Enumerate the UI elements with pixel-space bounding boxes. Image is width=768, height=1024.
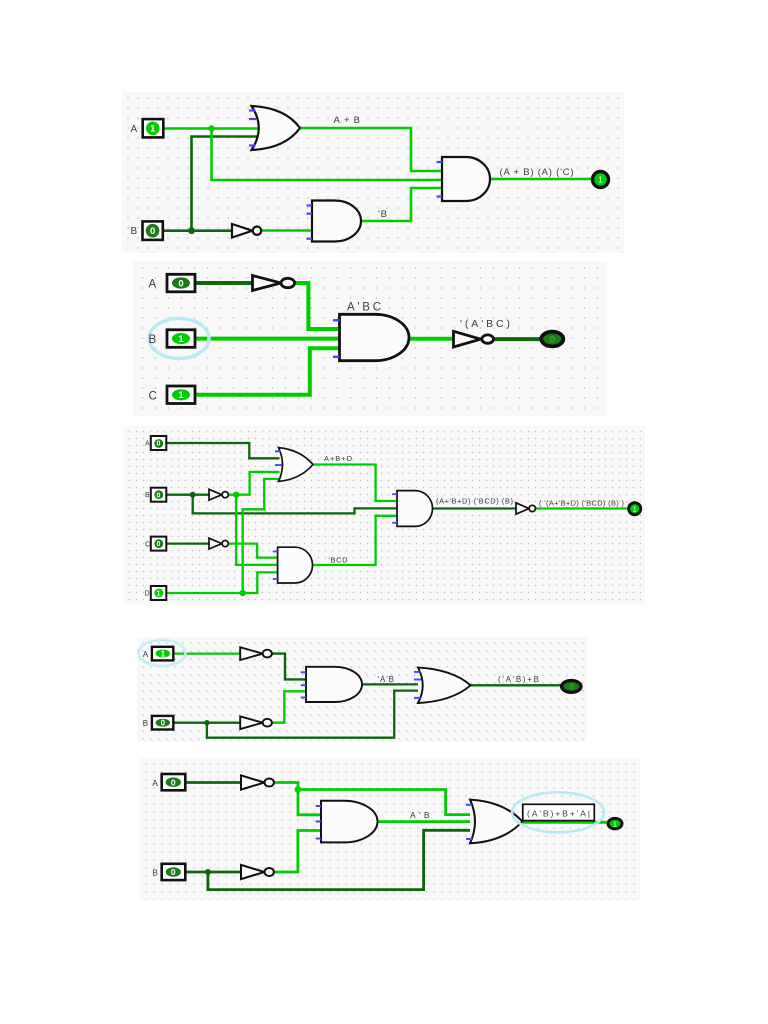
label D3 — [145, 591, 150, 598]
label A — [131, 124, 138, 135]
or-gate OR3 — [279, 448, 314, 482]
svg-text:1: 1 — [598, 176, 603, 185]
label B3 — [145, 492, 150, 499]
wire B4 to NOT4b — [173, 722, 240, 724]
wire D3 to OR3 bottom input — [243, 479, 280, 593]
input pin C3 — [151, 537, 167, 551]
wire A to OR1 — [163, 127, 259, 130]
svg-text:A'B: A'B — [410, 810, 430, 820]
label ('A'B)+B — [498, 675, 539, 684]
wire B3 to AND3b middle input — [193, 495, 397, 514]
wire AND4 output 'A'B to OR4 — [362, 683, 418, 685]
wire NOT1 output to AND1a — [262, 229, 313, 232]
node 'A junction — [295, 786, 302, 793]
wire C2 to AND2 bottom input — [195, 348, 340, 395]
pin stub AND5 input 1 — [316, 805, 321, 807]
svg-text:0: 0 — [161, 719, 166, 728]
not-gate NOT2a — [253, 276, 295, 291]
input pin B3 — [151, 488, 167, 502]
pin stub AND2 input 5 — [333, 356, 340, 358]
svg-text:C: C — [145, 541, 150, 548]
label (A + B) (A) ('C) — [500, 167, 574, 178]
input pin A2 — [167, 274, 195, 292]
pin stub AND5 input 5 — [316, 838, 321, 840]
svg-text:'A'B: 'A'B — [378, 675, 395, 684]
wire A4 to NOT4a — [173, 652, 240, 654]
node B3 junction — [190, 492, 196, 498]
label A3 — [145, 441, 150, 448]
svg-text:(A + B) (A) ('C): (A + B) (A) ('C) — [500, 167, 574, 178]
label A+B+D — [324, 454, 353, 463]
svg-text:0: 0 — [157, 541, 161, 548]
label A'B — [410, 810, 430, 820]
wire A5 to NOT5a — [185, 781, 241, 784]
svg-text:A: A — [152, 778, 158, 788]
label A'BC — [347, 302, 381, 314]
svg-text:A'BC: A'BC — [347, 302, 381, 314]
wire C3 to NOT3b — [166, 542, 209, 544]
wire 'B to AND3a middle input — [236, 495, 277, 565]
svg-text:0: 0 — [150, 226, 155, 237]
wire NOT3a output 'B to OR3 — [228, 472, 280, 495]
pin stub AND4 input 1 — [301, 671, 306, 673]
wire NOT5b output 'B to AND5 bottom input — [274, 831, 321, 873]
not-gate NOT5a — [241, 775, 274, 789]
wire OR4 output to LED4 — [471, 684, 562, 686]
pin stub OR1 input 5 — [249, 144, 256, 146]
svg-text:B: B — [149, 334, 157, 346]
not-gate NOT3b — [209, 538, 228, 549]
label B2 — [149, 334, 157, 346]
wire NOT2b output to LED2 — [493, 337, 541, 341]
node B4 junction — [204, 720, 209, 725]
input pin C2 — [167, 386, 195, 404]
wire B4 to OR4 bottom input — [207, 691, 418, 738]
pin stub AND1a input 2 — [307, 213, 313, 215]
pin stub OR4 input 5 — [414, 697, 421, 699]
svg-text:(A+'B+D) ('BCD) (B): (A+'B+D) ('BCD) (B) — [436, 497, 513, 506]
wire AND5 output A'B to OR5 — [378, 820, 471, 823]
wire NOT4a output 'A to AND4 top input — [272, 654, 306, 680]
svg-text:'(A'BC): '(A'BC) — [460, 318, 510, 330]
wire OR3 output A+B+D to AND3b top input — [313, 465, 397, 502]
and-gate AND1b — [442, 157, 490, 201]
wire NOT3b output 'C to AND3a top input — [228, 544, 278, 558]
pin stub OR5 input 5 — [466, 838, 472, 840]
and-gate AND5 — [321, 801, 378, 843]
not-gate NOT1 — [232, 224, 261, 238]
svg-text:1: 1 — [178, 390, 184, 401]
label C2 — [149, 390, 157, 402]
svg-text:1: 1 — [150, 124, 156, 135]
wire NOT3c output to LED3 — [536, 507, 629, 509]
svg-text:D: D — [145, 591, 150, 598]
pin stub AND3b input 5 — [392, 522, 397, 524]
pin stub AND4 input 3 — [301, 684, 306, 686]
label C3 — [145, 541, 150, 548]
wire D3 to AND3a bottom input — [166, 572, 277, 593]
not-gate NOT4a — [240, 647, 272, 660]
label ( '(A+'B+D) ('BCD) (B) ) — [539, 499, 624, 508]
svg-text:B: B — [143, 719, 148, 728]
pin stub OR3 input 1 — [275, 450, 281, 452]
pin stub AND1a input 5 — [307, 238, 313, 240]
wire B to NOT1 — [163, 229, 232, 232]
pin stub OR3 input 3 — [275, 464, 282, 466]
svg-text:1: 1 — [633, 506, 637, 513]
label (A+'B+D) ('BCD) (B) — [436, 497, 513, 506]
pin stub AND4 input 5 — [301, 697, 306, 699]
wire NOT2a output 'A to AND2 top input — [295, 283, 340, 329]
wire OR1 output A+B to AND1b top input — [300, 128, 442, 171]
LED5 output — [608, 818, 622, 828]
input pin A3 — [151, 436, 167, 450]
wire A3 to OR3 — [166, 443, 279, 458]
svg-text:( '(A+'B+D) ('BCD) (B) ): ( '(A+'B+D) ('BCD) (B) ) — [539, 499, 624, 508]
svg-text:0: 0 — [570, 682, 574, 691]
svg-text:0: 0 — [171, 777, 176, 787]
input pin D3 — [151, 586, 167, 600]
highlight ellipse around A4 — [139, 640, 186, 666]
input pin B2 — [167, 330, 195, 348]
and-gate AND2 — [340, 314, 410, 360]
pin stub AND3b input 1 — [392, 493, 397, 495]
wire B2 to AND2 middle input — [195, 337, 340, 341]
svg-text:A+B: A+B — [334, 115, 361, 126]
or-gate OR4 — [418, 668, 471, 703]
label B5 — [152, 868, 158, 878]
label 'A'B — [378, 675, 395, 684]
wire NOT4b output 'B to AND4 bottom input — [272, 691, 306, 722]
wire AND2 output A'BC to NOT2b — [409, 337, 454, 341]
label A4 — [143, 650, 149, 659]
pin stub AND3a input 1 — [273, 551, 278, 553]
svg-text:A: A — [149, 279, 157, 291]
label 'B — [378, 209, 387, 220]
svg-text:0: 0 — [178, 278, 183, 289]
input pin B5 — [162, 864, 186, 880]
or-gate OR5 — [470, 800, 522, 844]
pin stub AND1b input 5 — [437, 195, 443, 197]
svg-text:0: 0 — [171, 867, 176, 877]
svg-text:A+B+D: A+B+D — [324, 454, 353, 463]
input pin A4 — [152, 647, 173, 661]
svg-text:0: 0 — [157, 441, 161, 448]
or-gate OR1 — [252, 106, 301, 150]
svg-text:A: A — [143, 650, 149, 659]
label '(A'BC) — [460, 318, 510, 330]
svg-text:('A'B)+B: ('A'B)+B — [498, 675, 539, 684]
label 'BCD — [329, 555, 349, 564]
input pin B1 — [143, 221, 163, 240]
not-gate NOT2b — [454, 331, 494, 347]
svg-text:0: 0 — [157, 492, 161, 499]
svg-text:B: B — [145, 492, 150, 499]
wire 'A to AND5 top input — [298, 790, 321, 815]
svg-text:A: A — [131, 124, 138, 135]
pin stub AND2 input 1 — [333, 319, 340, 321]
svg-text:'B: 'B — [378, 209, 387, 220]
not-gate NOT3a — [209, 489, 228, 500]
wire B5 to NOT5b — [185, 871, 241, 874]
pin stub OR1 input 1 — [249, 109, 256, 111]
wire AND1b output to LED1 — [490, 178, 592, 181]
label B4 — [143, 719, 148, 728]
LED1 output — [593, 172, 609, 188]
svg-text:A: A — [145, 441, 150, 448]
node B5 junction — [205, 869, 211, 875]
wire AND1a output 'B to AND1b bottom input — [361, 188, 442, 221]
node 'B junction — [233, 492, 239, 498]
wire AND3a output 'BCD to AND3b bottom input — [313, 516, 398, 565]
wire B5 to OR5 bottom input — [208, 830, 470, 889]
label A2 — [149, 279, 157, 291]
wire B to OR1 lower input — [192, 137, 260, 231]
svg-text:0: 0 — [550, 334, 555, 344]
wire OR5 output to LED5 — [522, 821, 606, 824]
and-gate AND3b — [397, 491, 433, 527]
svg-text:(A'B)+B+'A|: (A'B)+B+'A| — [527, 809, 590, 819]
pin stub OR4 input 1 — [414, 671, 421, 673]
svg-text:B: B — [152, 868, 158, 878]
LED2 output — [541, 332, 563, 347]
LED3 output — [629, 503, 641, 515]
LED4 output — [562, 681, 581, 693]
highlight ellipse around B2 — [149, 318, 209, 358]
svg-text:1: 1 — [157, 591, 161, 598]
input pin A1 — [143, 119, 164, 137]
wire A2 to NOT2a — [195, 281, 254, 285]
label A5 — [152, 778, 158, 788]
and-gate AND1a — [312, 201, 361, 242]
input pin B4 — [152, 716, 173, 730]
node B junction — [188, 227, 195, 234]
label B — [131, 226, 138, 237]
and-gate AND3a — [278, 547, 313, 583]
node A junction — [208, 125, 214, 131]
wire B3 to NOT3a — [166, 494, 209, 496]
pin stub AND3a input 5 — [273, 578, 278, 580]
input pin A5 — [162, 774, 186, 790]
pin stub AND5 input 3 — [316, 821, 321, 823]
pin stub AND1b input 1 — [437, 161, 443, 163]
pin stub OR1 input 2 — [249, 118, 256, 120]
wire AND3b output to NOT3c — [433, 507, 517, 509]
not-gate NOT4b — [240, 716, 272, 729]
label A+B — [334, 115, 361, 126]
svg-text:B: B — [131, 226, 138, 237]
pin stub AND1a input 1 — [307, 204, 313, 206]
and-gate AND4 — [306, 667, 362, 702]
pin stub OR4 input 2 — [414, 679, 422, 681]
not-gate NOT3c — [516, 503, 536, 514]
pin stub OR5 input 1 — [466, 804, 472, 806]
not-gate NOT5b — [241, 865, 274, 879]
wire A to AND1b middle input — [212, 129, 443, 181]
node D3 junction — [240, 590, 246, 596]
svg-text:1: 1 — [161, 649, 166, 658]
svg-text:1: 1 — [613, 821, 617, 828]
svg-text:C: C — [149, 390, 157, 402]
svg-text:'BCD: 'BCD — [329, 555, 349, 564]
highlight ellipse around output label — [512, 792, 604, 832]
wire NOT5a output 'A to OR5 top input — [274, 783, 470, 815]
output label box (A'B)+B+'A — [523, 804, 595, 820]
svg-text:1: 1 — [178, 334, 184, 345]
